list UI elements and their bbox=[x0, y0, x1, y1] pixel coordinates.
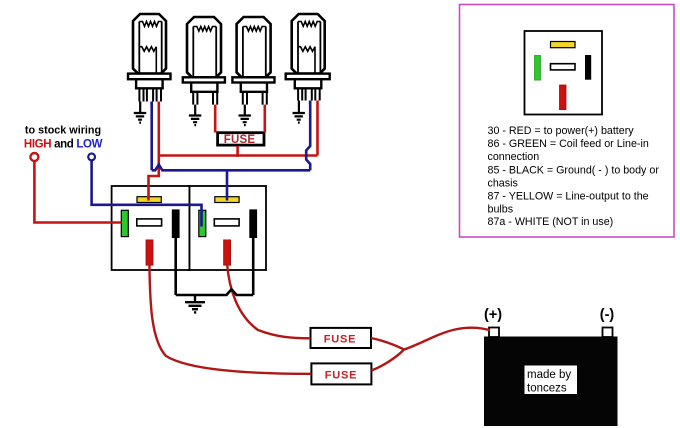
svg-text:87 - YELLOW = Line-output to t: 87 - YELLOW = Line-output to the bbox=[488, 190, 649, 202]
ground bulb4 bbox=[293, 113, 305, 123]
wire black bulb4 pin to ground bbox=[298, 101, 300, 114]
RELAYS-LAYER bbox=[112, 186, 266, 270]
svg-text:86 - GREEN = Coil feed or Line: 86 - GREEN = Coil feed or Line-in bbox=[488, 138, 649, 150]
ground bulb1 bbox=[134, 113, 146, 123]
svg-text:toncezs: toncezs bbox=[527, 383, 567, 395]
svg-text:(+): (+) bbox=[484, 307, 502, 323]
wire red stub fuse bottom to red bus bbox=[236, 146, 239, 157]
legend black pin 85 bbox=[585, 55, 591, 80]
battery minus terminal bbox=[603, 328, 613, 338]
relay K2 box bbox=[189, 186, 266, 270]
pins bulb1 bbox=[139, 88, 161, 101]
bulb 3 single-filament bbox=[232, 17, 274, 125]
wire red relay1 red pin 30 down to lower FUSE bbox=[149, 264, 311, 374]
node HIGH terminal bbox=[30, 153, 38, 161]
BULBS-LAYER bbox=[128, 14, 330, 125]
wire black bulb1 pin to ground bbox=[139, 102, 141, 114]
pins bulb4 bbox=[298, 88, 320, 100]
relay K2 green pin 86 bbox=[199, 210, 206, 236]
wire red from HIGH terminal to relay1 green pin 86 bbox=[34, 162, 121, 223]
legend green pin 86 bbox=[535, 56, 541, 81]
legend border box bbox=[460, 5, 675, 238]
wire black ground bus with hop over red wire bbox=[176, 289, 254, 295]
legend relay socket square bbox=[525, 31, 603, 115]
bulb 2 single-filament bbox=[183, 17, 225, 125]
svg-text:HIGH and LOW: HIGH and LOW bbox=[24, 139, 103, 151]
relay K1 box bbox=[112, 186, 190, 270]
relay K2 red pin 30 bbox=[224, 240, 231, 265]
made by label box bbox=[525, 366, 578, 395]
relay K1 white pin 87a bbox=[137, 219, 162, 226]
battery body bbox=[484, 337, 618, 427]
wire red lower FUSE to junction bbox=[371, 350, 404, 371]
filament high bulb4 bbox=[298, 22, 321, 27]
wire red relay2 red pin 30 down to upper FUSE bbox=[227, 264, 310, 338]
svg-text:30 - RED = to power(+) battery: 30 - RED = to power(+) battery bbox=[488, 125, 635, 137]
svg-text:87a - WHITE (NOT in use): 87a - WHITE (NOT in use) bbox=[488, 216, 614, 228]
flange bulb3 bbox=[232, 77, 274, 82]
TEXT-LAYER bbox=[24, 125, 103, 162]
fuse F2 box (to upper battery feed) bbox=[311, 328, 372, 348]
relay K2 yellow pin 87 bbox=[215, 197, 239, 203]
svg-text:FUSE: FUSE bbox=[325, 369, 358, 381]
pins bulb3 bbox=[243, 92, 267, 105]
svg-text:(-): (-) bbox=[600, 307, 615, 323]
flange bulb2 bbox=[183, 77, 225, 82]
relay K1 green pin 86 bbox=[121, 210, 128, 236]
svg-text:to stock wiring: to stock wiring bbox=[25, 125, 101, 137]
svg-text:made by: made by bbox=[527, 369, 571, 381]
filament bulb3 bbox=[243, 27, 266, 32]
relay K2 white pin 87a bbox=[214, 219, 239, 226]
wire red bus from bulb1 red pin across to bulb4 red pin bbox=[159, 101, 318, 156]
wire black relay1 pin 85 down to ground bus bbox=[174, 236, 177, 295]
relay K1 black pin 85 bbox=[172, 210, 179, 238]
wire blue from LOW terminal to relay2 green pin 86 bbox=[92, 160, 202, 226]
base bulb1 bbox=[136, 79, 163, 88]
relay K1 red pin 30 bbox=[146, 240, 153, 265]
WIRES-LAYER bbox=[34, 101, 490, 374]
svg-text:bulbs: bulbs bbox=[488, 203, 514, 215]
filament bulb2 bbox=[193, 27, 216, 32]
wire red upper FUSE to junction bbox=[371, 338, 404, 350]
battery plus terminal bbox=[489, 328, 499, 338]
fuse F1 top box bbox=[218, 133, 264, 145]
base bulb4 bbox=[295, 79, 322, 88]
wire black relay2 pin 85 down to ground bus bbox=[252, 236, 255, 295]
relay K2 black pin 85 bbox=[250, 210, 257, 238]
wire blue bulb1 pin stub bbox=[150, 102, 153, 107]
svg-text:chasis: chasis bbox=[488, 177, 518, 189]
wire blue drop from bus to relay2 yellow pin 87 bbox=[226, 170, 229, 200]
pins bulb2 bbox=[193, 92, 217, 105]
base bulb3 bbox=[241, 83, 267, 92]
wire black bulb3 pin to ground bbox=[244, 105, 246, 116]
svg-text:connection: connection bbox=[488, 151, 540, 163]
svg-text:FUSE: FUSE bbox=[224, 134, 256, 146]
legend text lines bbox=[488, 125, 660, 228]
wire red bulb2 pin down to fuse top bbox=[214, 105, 217, 133]
bulb 1 dual-filament headlight bbox=[128, 14, 171, 123]
legend white pin 87a bbox=[551, 64, 576, 70]
wire red junction to battery plus terminal bbox=[404, 328, 490, 350]
legend yellow pin 87 bbox=[551, 42, 576, 48]
node LOW terminal bbox=[88, 154, 95, 161]
ground relay bus bbox=[185, 295, 205, 312]
flange bulb4 bbox=[286, 74, 330, 80]
filament low bulb1 bbox=[139, 47, 156, 74]
wire black bulb2 pin to ground bbox=[194, 105, 196, 116]
bulb 4 dual-filament headlight bbox=[286, 14, 330, 123]
base bulb2 bbox=[191, 83, 217, 92]
wire red step from bus down to relay1 yellow pin 87 bbox=[149, 156, 159, 201]
legend red pin 30 bbox=[560, 85, 567, 110]
filament low bulb4 bbox=[298, 47, 315, 74]
BATTERY-LAYER bbox=[484, 307, 618, 426]
FUSES-LAYER bbox=[218, 133, 372, 385]
svg-text:FUSE: FUSE bbox=[324, 333, 357, 345]
wire blue bulb4 pin stub bbox=[309, 101, 312, 105]
relay K1 yellow pin 87 bbox=[137, 197, 161, 203]
LEGEND-LAYER bbox=[460, 5, 675, 238]
filament high bulb1 bbox=[139, 22, 162, 27]
wire blue bus from bulb1 blue pin to bulb4 blue pin with hop over red bbox=[152, 101, 311, 171]
svg-text:85 - BLACK = Ground( - ) to bo: 85 - BLACK = Ground( - ) to body or bbox=[488, 164, 660, 176]
fuse F3 box (lower) bbox=[311, 363, 371, 384]
flange bulb1 bbox=[128, 74, 171, 80]
ground bulb3 bbox=[239, 116, 251, 126]
ground bulb2 bbox=[189, 116, 201, 126]
wire red bulb3 pin down to fuse top bbox=[263, 105, 266, 133]
